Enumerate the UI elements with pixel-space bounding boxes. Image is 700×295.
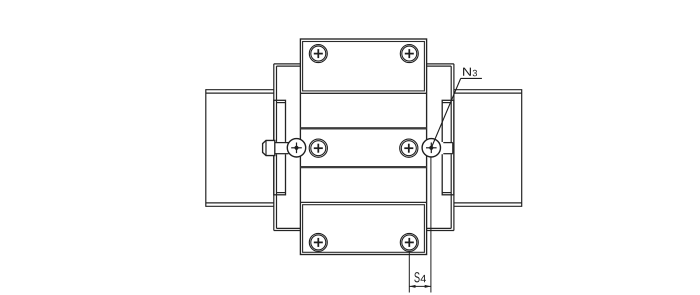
S4 extension line from nipple center (430, 157, 432, 292)
corner screw top-right (400, 45, 418, 63)
grease nipple hex head (left) (263, 140, 275, 155)
bottom end cap (300, 202, 426, 252)
label N3 (463, 68, 471, 76)
hex facet line (265, 140, 267, 155)
carriage block outer outline (300, 39, 426, 255)
body seam line lower (300, 166, 426, 168)
center screw left (309, 139, 327, 157)
body seam line upper (300, 127, 426, 129)
right seal strip (442, 100, 454, 195)
S4 extension line from screw center (408, 252, 410, 293)
rail left segment (206, 89, 274, 207)
grease port notch (right) (441, 142, 453, 154)
corner screw bottom-right S4 (400, 233, 418, 251)
corner screw bottom-left (309, 233, 327, 251)
label S4 (414, 272, 419, 282)
grease nipple head circle N3 (right) (422, 139, 440, 157)
grease nipple head circle (left) (287, 139, 305, 157)
right side step (427, 64, 454, 231)
left seal strip (274, 100, 286, 195)
corner screw top-left (309, 45, 327, 63)
left side step (274, 64, 301, 231)
S4 dimension line with arrows (409, 285, 431, 288)
nipple stem (left) (275, 142, 289, 154)
top end cap (300, 42, 426, 94)
leader line N3 (432, 78, 482, 147)
rail right segment (454, 89, 522, 207)
center screw right (400, 139, 418, 157)
